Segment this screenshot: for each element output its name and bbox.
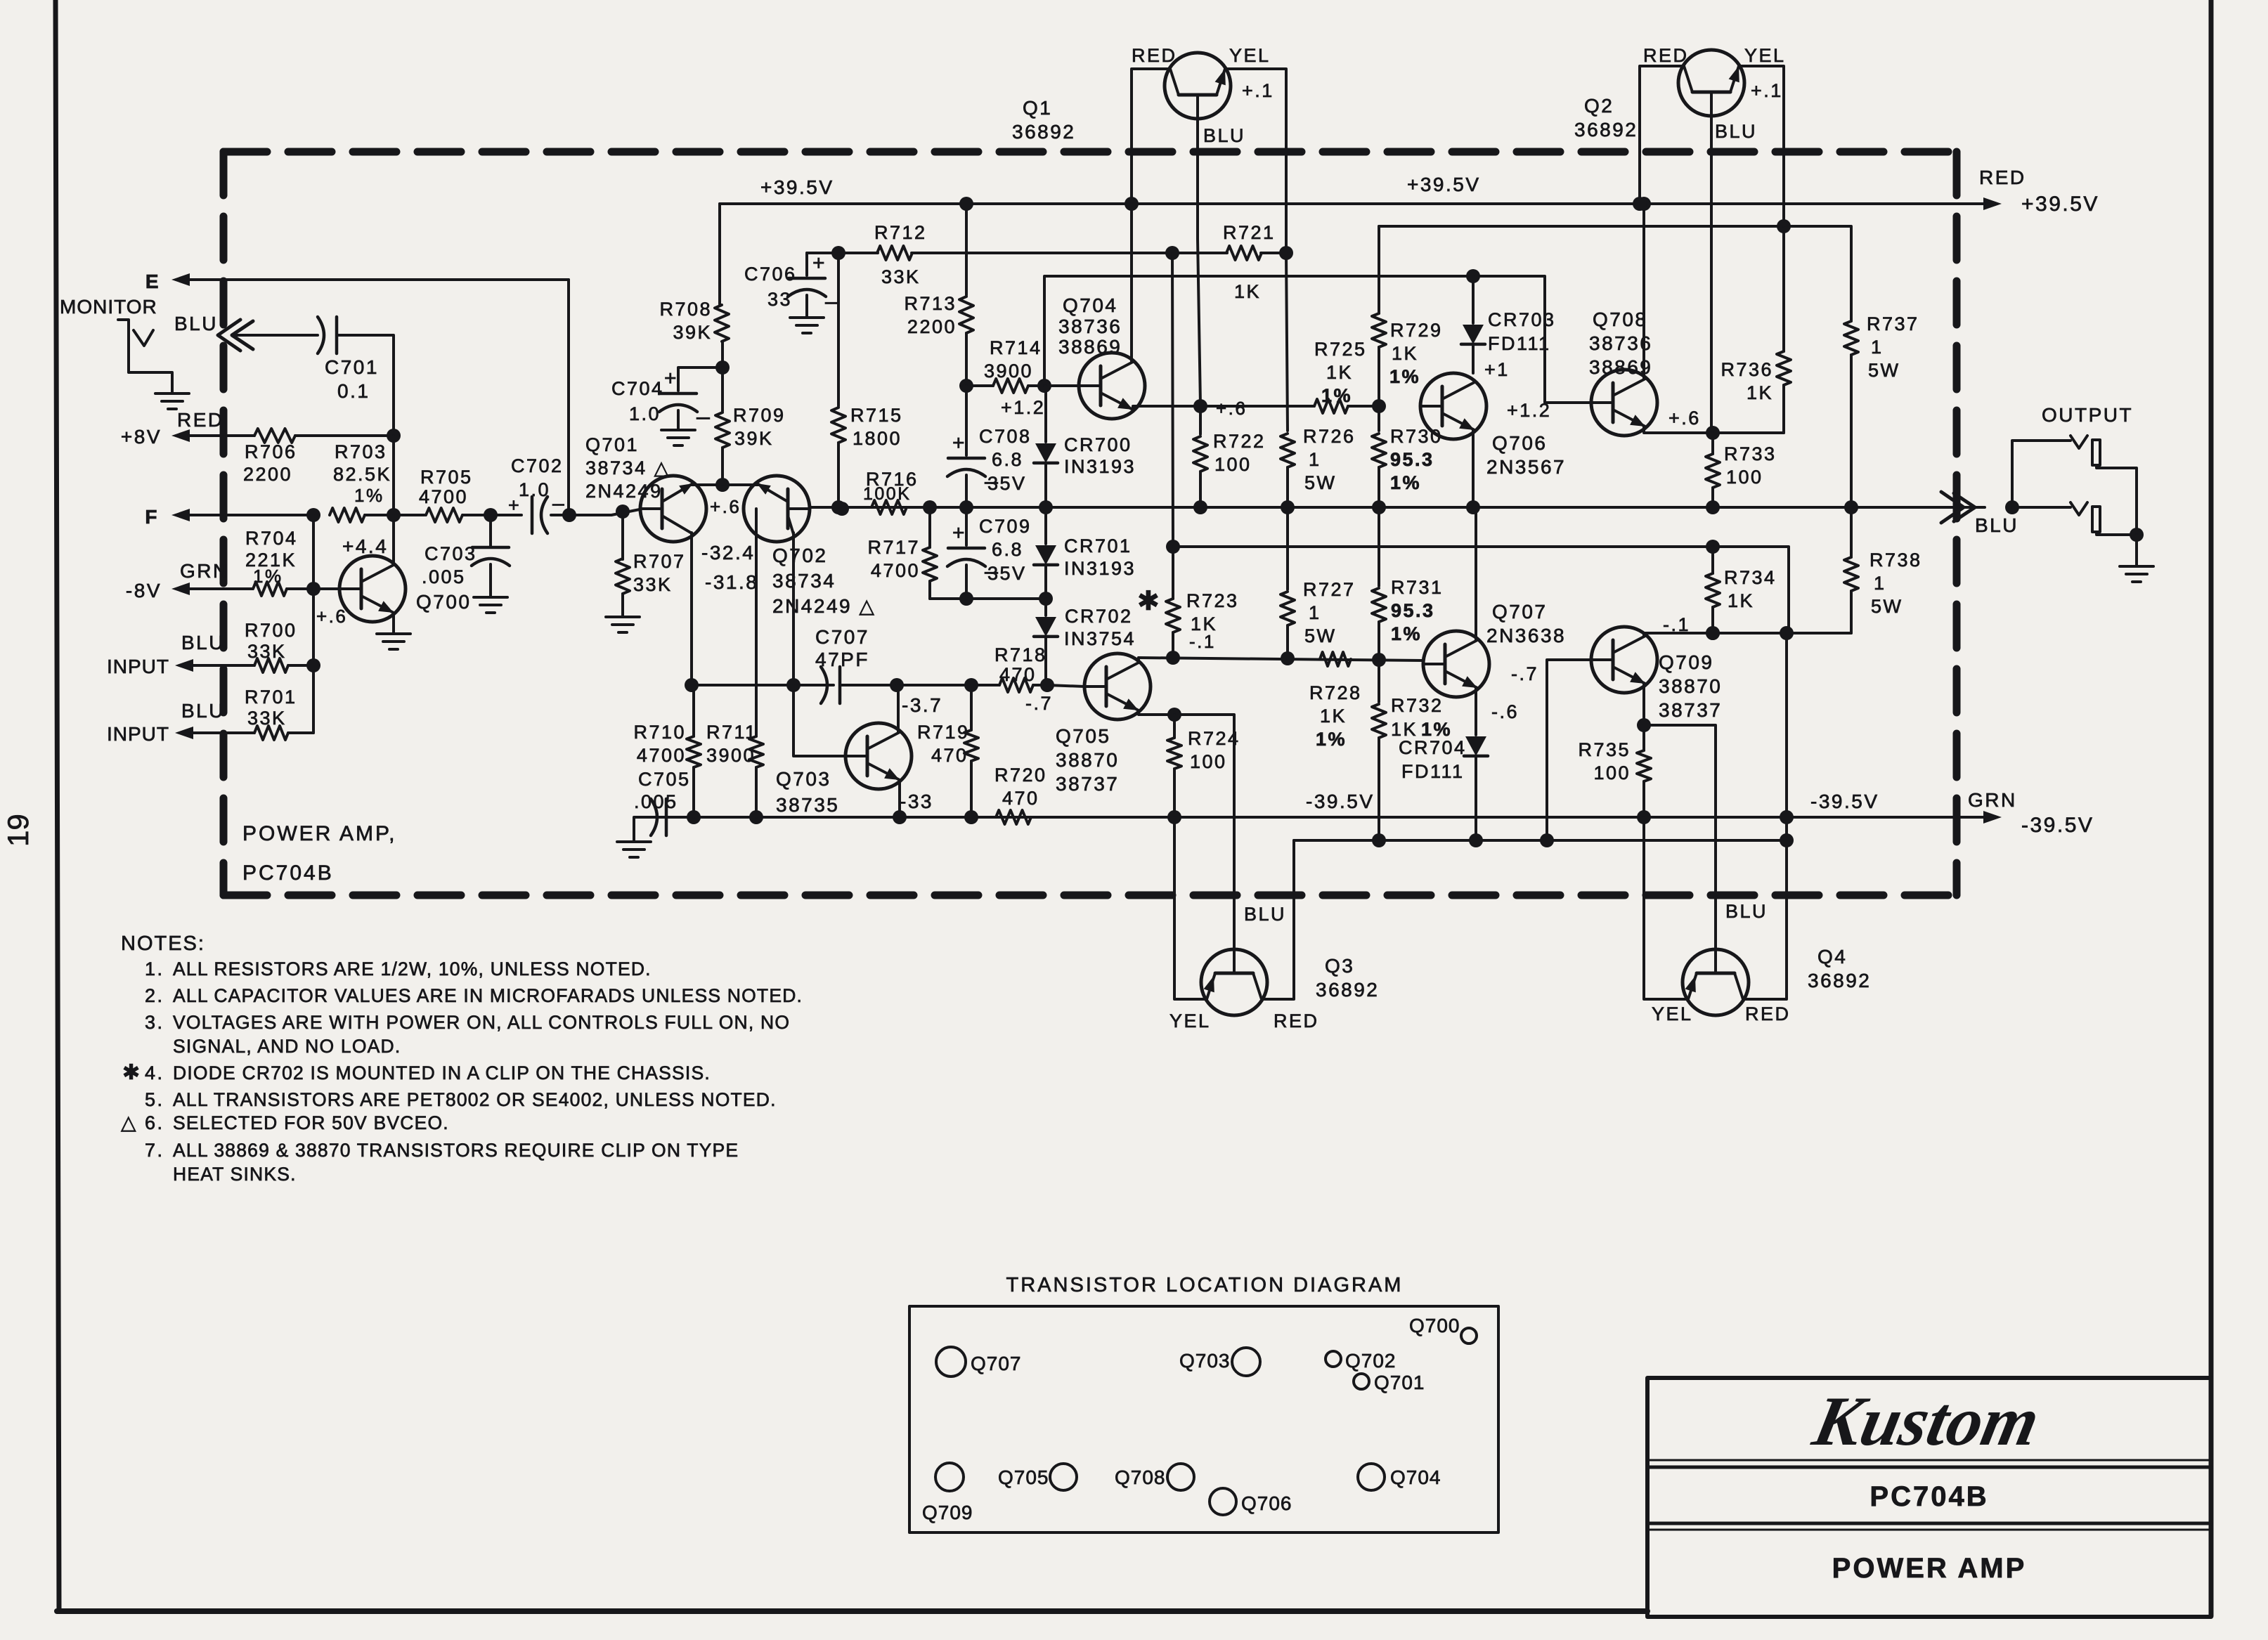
transistor Q704	[1044, 384, 1078, 387]
junction jack ground	[2130, 528, 2144, 542]
svg-text:R720: R720	[994, 764, 1047, 786]
svg-text:GRN: GRN	[1968, 789, 2017, 811]
transistor Q1	[1165, 53, 1231, 119]
svg-text:C701: C701	[325, 356, 379, 378]
junction C709 top	[959, 500, 973, 514]
svg-text:38735: 38735	[776, 794, 839, 816]
svg-text:R723: R723	[1186, 590, 1239, 611]
svg-text:5.: 5.	[145, 1089, 164, 1110]
resistor R731	[1378, 507, 1380, 586]
svg-text:Q705: Q705	[1056, 725, 1111, 747]
svg-text:95.3: 95.3	[1390, 449, 1434, 470]
wire R714 up to rail393	[1044, 276, 1473, 386]
svg-text:IN3754: IN3754	[1064, 628, 1136, 649]
svg-text:-31.8: -31.8	[705, 571, 758, 593]
junction Q3 yel / R724	[1167, 810, 1181, 824]
svg-text:38737: 38737	[1659, 699, 1722, 721]
resistor R728 on rail938	[1320, 652, 1351, 666]
svg-text:C703: C703	[425, 543, 477, 564]
junction R736 top rail2	[1777, 219, 1791, 233]
svg-text:R730: R730	[1390, 426, 1443, 447]
junction Q702 base	[835, 502, 849, 516]
resistor R718	[897, 684, 999, 686]
svg-text:C708: C708	[979, 426, 1032, 447]
svg-text:+4.4: +4.4	[342, 535, 388, 557]
svg-text:BLU: BLU	[1203, 125, 1245, 146]
svg-text:Q3: Q3	[1325, 955, 1354, 977]
svg-text:+1.2: +1.2	[1001, 397, 1045, 418]
transistor Q706	[1420, 373, 1486, 439]
resistor R707	[621, 512, 624, 559]
node +8V arrow	[171, 429, 190, 442]
svg-text:1: 1	[1309, 449, 1321, 470]
wire Q702 collector down	[792, 533, 795, 685]
svg-text:R732: R732	[1391, 695, 1444, 716]
svg-text:ALL RESISTORS ARE 1/2W, 10%, U: ALL RESISTORS ARE 1/2W, 10%, UNLESS NOTE…	[173, 958, 652, 980]
svg-text:E: E	[145, 271, 160, 292]
svg-text:Q702: Q702	[1345, 1350, 1397, 1372]
svg-text:ALL 38869 & 38870 TRANSISTORS: ALL 38869 & 38870 TRANSISTORS REQUIRE CL…	[173, 1140, 739, 1161]
wire Q703 emitter	[898, 780, 901, 817]
junction CR704 bottom	[1469, 833, 1483, 847]
svg-text:1%: 1%	[1390, 472, 1421, 493]
junction Q702 collector	[786, 678, 801, 692]
wire Q704 collector to bus	[1130, 204, 1133, 362]
svg-text:Q708: Q708	[1593, 308, 1648, 330]
wire corner down to -39.5 bus	[1785, 633, 1788, 840]
svg-text:SELECTED FOR 50V BVCEO.: SELECTED FOR 50V BVCEO.	[173, 1112, 449, 1133]
svg-text:38736: 38736	[1058, 315, 1122, 337]
resistor R726	[1286, 253, 1288, 431]
junction emitter node +.6	[715, 478, 730, 492]
junction Q701 collector/R710	[685, 678, 699, 692]
svg-text:1: 1	[1874, 573, 1886, 594]
monitor jack	[118, 320, 172, 392]
rail936 -.1	[1139, 658, 1423, 660]
wire monitor to C701	[232, 334, 318, 337]
svg-text:6.8: 6.8	[992, 539, 1023, 560]
svg-text:38870: 38870	[1056, 749, 1119, 771]
svg-text:100K: 100K	[863, 484, 911, 504]
svg-text:39K: 39K	[734, 428, 774, 449]
svg-text:1: 1	[1309, 602, 1321, 623]
resistor R719	[970, 685, 973, 730]
svg-text:R733: R733	[1724, 443, 1777, 464]
diode CR700	[1035, 443, 1056, 463]
rail 975 C707	[692, 684, 834, 686]
svg-text:HEAT SINKS.: HEAT SINKS.	[173, 1164, 297, 1185]
junction -8V/Q700 base	[306, 582, 320, 596]
svg-text:Q709: Q709	[1659, 651, 1714, 673]
resistor R703	[330, 508, 365, 522]
junction Q706 emitter rail722	[1466, 500, 1480, 514]
resistor R723	[1172, 547, 1174, 599]
svg-text:5W: 5W	[1868, 360, 1900, 381]
svg-text:Q704: Q704	[1063, 294, 1118, 316]
svg-text:BLU: BLU	[1975, 514, 2018, 536]
wire Q2 yel lead	[1739, 66, 1784, 226]
svg-text:R726: R726	[1303, 426, 1356, 447]
svg-text:C707: C707	[815, 626, 869, 648]
svg-text:3900: 3900	[706, 745, 756, 766]
svg-text:GRN: GRN	[180, 560, 229, 582]
svg-text:Q2: Q2	[1584, 95, 1614, 117]
junction R719 top	[964, 678, 978, 692]
transistor location diagram box	[909, 1306, 1498, 1532]
svg-text:R736: R736	[1721, 359, 1773, 380]
svg-text:1K: 1K	[1747, 382, 1773, 403]
wire Q1 yel lead	[1225, 69, 1286, 253]
wire +8V node down to F rail	[392, 436, 395, 510]
page border left	[56, 0, 59, 1611]
svg-text:-8V: -8V	[126, 580, 162, 601]
svg-text:19: 19	[1, 814, 34, 847]
svg-text:R709: R709	[733, 405, 786, 426]
junction Q709 emitter	[1637, 718, 1651, 732]
capacitor C709	[965, 507, 968, 545]
svg-text:36892: 36892	[1574, 119, 1638, 141]
junction Q708 emitter/R733	[1706, 426, 1720, 440]
logo Kustom	[1806, 1382, 2046, 1460]
svg-text:R734: R734	[1724, 567, 1777, 588]
svg-text:BLU: BLU	[174, 313, 218, 334]
node E arrow	[171, 273, 190, 286]
ground C705	[617, 840, 651, 843]
junction R723 top rail778	[1166, 540, 1180, 554]
svg-text:R738: R738	[1870, 549, 1922, 571]
junction R732 rail1196	[1372, 833, 1386, 847]
svg-text:CR703: CR703	[1488, 309, 1556, 330]
svg-text:R711: R711	[706, 722, 758, 743]
resistor R714	[966, 384, 993, 387]
svg-text:R718: R718	[994, 644, 1047, 665]
junction R724 top	[1167, 708, 1181, 722]
svg-text:R719: R719	[917, 722, 970, 743]
wire Q700 collector	[392, 515, 395, 565]
wire R738 bottom to rail901	[1787, 632, 1851, 634]
transistor Q3	[1201, 949, 1267, 1015]
svg-text:CR700: CR700	[1064, 434, 1132, 455]
svg-text:33K: 33K	[881, 266, 921, 287]
svg-text:Q700: Q700	[416, 591, 472, 613]
rail 1196	[1294, 839, 1787, 842]
svg-text:–: –	[825, 288, 838, 315]
location Q702	[1326, 1351, 1341, 1367]
page border bottom	[57, 1608, 1647, 1614]
capacitor C702	[491, 514, 521, 516]
wire Q700 emitter to ground	[392, 613, 395, 632]
resistor R722	[1199, 406, 1202, 434]
svg-text:R706: R706	[245, 441, 297, 462]
svg-text:5W: 5W	[1871, 596, 1903, 617]
svg-text:3900: 3900	[984, 360, 1033, 382]
junction diode chain rail722	[1039, 500, 1053, 514]
svg-text:1K: 1K	[1191, 613, 1217, 634]
junction input1	[306, 658, 320, 672]
svg-text:R724: R724	[1188, 728, 1240, 749]
+39.5V top bus	[720, 202, 1985, 205]
svg-text:6.: 6.	[145, 1112, 164, 1133]
wire Q705 collector	[1137, 658, 1140, 663]
rail852 C709 to CR702	[930, 597, 1046, 600]
resistor R738	[1850, 507, 1853, 557]
wire Q701 emitter node	[692, 483, 759, 486]
svg-text:Q700: Q700	[1409, 1315, 1460, 1336]
transistor Q703	[845, 723, 912, 789]
svg-text:1K: 1K	[1234, 281, 1261, 302]
title block divider 2	[1647, 1522, 2211, 1525]
junction R708/C704/R709	[715, 360, 730, 375]
svg-text:Q705: Q705	[998, 1466, 1049, 1488]
junction R726 bottom	[1281, 500, 1295, 514]
junction R715 bottom	[831, 500, 845, 514]
wire E down to C702 node	[567, 280, 570, 510]
svg-text:PC704B: PC704B	[1870, 1481, 1988, 1512]
output jack 1	[2071, 436, 2087, 448]
svg-text:✱: ✱	[122, 1061, 142, 1084]
ground monitor jack	[155, 392, 189, 395]
resistor R734	[1711, 547, 1714, 573]
resistor R712	[838, 252, 878, 254]
svg-text:33K: 33K	[633, 574, 673, 595]
svg-text:R713: R713	[904, 293, 957, 314]
wire CR700 to rail722	[1044, 463, 1047, 507]
resistor R701	[193, 731, 254, 734]
output jack 2	[2071, 502, 2087, 515]
junction R712 left	[831, 246, 845, 260]
svg-text:470: 470	[999, 664, 1037, 685]
transistor Q4	[1683, 949, 1749, 1015]
page border right	[2209, 0, 2214, 1616]
wire Q707 collector	[1475, 507, 1477, 640]
junction R727 bottom	[1281, 651, 1295, 665]
svg-text:1%: 1%	[1316, 729, 1347, 750]
junction R714 left	[959, 379, 973, 393]
svg-text:R737: R737	[1867, 313, 1919, 334]
svg-text:TRANSISTOR LOCATION DIAGRAM: TRANSISTOR LOCATION DIAGRAM	[1006, 1274, 1404, 1296]
wire C708 below R713	[965, 386, 968, 455]
svg-text:7.: 7.	[145, 1140, 164, 1161]
svg-text:Kustom: Kustom	[1806, 1382, 2046, 1460]
svg-text:R705: R705	[420, 467, 473, 488]
wire Q707 emitter	[1475, 688, 1477, 735]
svg-text:+39.5V: +39.5V	[2021, 193, 2099, 216]
junction Q709 base rail1196	[1540, 833, 1554, 847]
svg-text:82.5K: 82.5K	[333, 464, 391, 485]
svg-text:C704: C704	[611, 378, 664, 399]
svg-text:✱: ✱	[1137, 587, 1161, 616]
wire R725 to Q706 base	[1348, 405, 1379, 408]
+39.5V arrow right	[1983, 197, 2002, 210]
wire Q4 yel lead	[1644, 817, 1688, 999]
junction R713 top on bus	[959, 197, 973, 211]
rail R712/R721	[807, 252, 838, 254]
svg-text:RED: RED	[1274, 1010, 1319, 1031]
svg-text:Q701: Q701	[585, 434, 639, 455]
svg-text:BLU: BLU	[1725, 901, 1768, 922]
dashed board outline left	[220, 152, 228, 895]
svg-text:1.0: 1.0	[629, 403, 661, 424]
svg-text:4700: 4700	[871, 560, 920, 581]
capacitor C707	[821, 667, 827, 703]
wire C707 right	[840, 684, 897, 686]
resistor R700	[193, 664, 254, 667]
svg-text:C706: C706	[744, 263, 797, 285]
resistor R711	[755, 509, 758, 736]
svg-text:YEL: YEL	[1169, 1010, 1211, 1031]
svg-text:RED: RED	[1643, 45, 1689, 66]
svg-text:SIGNAL, AND NO LOAD.: SIGNAL, AND NO LOAD.	[173, 1036, 401, 1057]
svg-text:+39.5V: +39.5V	[760, 176, 834, 198]
svg-text:BLU: BLU	[181, 632, 225, 653]
title block divider 1	[1647, 1466, 2211, 1469]
svg-text:-3.7: -3.7	[902, 694, 942, 716]
junction R730 bottom	[1372, 500, 1386, 514]
svg-text:1%: 1%	[1391, 623, 1422, 644]
svg-text:-.6: -.6	[1491, 701, 1519, 722]
svg-text:100: 100	[1593, 762, 1631, 783]
transistor Q700	[313, 587, 339, 590]
dashed board outline bottom	[223, 892, 1957, 899]
ground output jack	[2120, 565, 2153, 568]
junction chain rail852	[1039, 592, 1053, 606]
svg-text:38870: 38870	[1659, 675, 1722, 697]
svg-text:1: 1	[1871, 337, 1884, 358]
svg-text:470: 470	[1002, 788, 1039, 809]
wire rail393 to Q708 base	[1473, 276, 1591, 403]
resistor R733	[1711, 433, 1714, 454]
junction F/R704	[306, 508, 320, 522]
wire Q704 emitter to +.6 rail	[1132, 407, 1134, 410]
resistor R725	[1314, 399, 1348, 413]
svg-text:36892: 36892	[1012, 121, 1075, 143]
svg-text:1K: 1K	[1326, 362, 1353, 383]
svg-text:YEL: YEL	[1652, 1003, 1693, 1024]
svg-text:-33: -33	[900, 790, 933, 812]
svg-text:RED: RED	[1132, 45, 1177, 66]
svg-text:-32.4: -32.4	[701, 542, 755, 564]
wire Q709 emitter to Q4 base	[1644, 725, 1716, 949]
junction R719 bottom	[964, 810, 978, 824]
wire C701 to +8V node	[337, 335, 394, 436]
+.6 rail Q704 emitter	[1133, 405, 1314, 408]
svg-text:POWER AMP,: POWER AMP,	[242, 822, 397, 845]
svg-text:-.7: -.7	[1511, 663, 1538, 684]
svg-text:+.6: +.6	[710, 496, 741, 517]
svg-text:RED: RED	[1979, 167, 2026, 188]
svg-text:+.1: +.1	[1751, 80, 1783, 101]
svg-text:+.6: +.6	[1216, 398, 1247, 419]
svg-text:R704: R704	[245, 528, 298, 549]
wire R703-R704 vertical	[312, 515, 315, 733]
svg-text:R721: R721	[1223, 222, 1276, 243]
dashed board outline right	[1953, 152, 1961, 895]
svg-text:-39.5V: -39.5V	[1810, 790, 1879, 812]
svg-text:RED: RED	[1745, 1003, 1791, 1024]
svg-text:2200: 2200	[243, 464, 292, 485]
wire R713 to R714 junction	[965, 333, 968, 386]
resistor R704	[190, 587, 252, 590]
svg-text:2N3638: 2N3638	[1486, 625, 1566, 646]
dashed board outline top	[223, 148, 1957, 156]
svg-text:ALL CAPACITOR VALUES ARE IN MI: ALL CAPACITOR VALUES ARE IN MICROFARADS …	[173, 985, 803, 1006]
svg-text:.005: .005	[422, 566, 466, 587]
resistor R716 on rail	[871, 500, 907, 514]
location Q703	[1232, 1348, 1260, 1376]
junction R723 bottom	[1166, 651, 1180, 665]
svg-text:4700: 4700	[637, 745, 686, 766]
junction bus 2542	[1780, 810, 1794, 824]
wire R721 junction down to R723	[1172, 254, 1173, 547]
rail393 CR703 junction	[1466, 269, 1480, 283]
svg-text:R729: R729	[1390, 320, 1443, 341]
capacitor C701	[318, 317, 324, 353]
wire output to jack2	[2012, 506, 2071, 509]
svg-text:ALL TRANSISTORS ARE PET8002 OR: ALL TRANSISTORS ARE PET8002 OR SE4002, U…	[173, 1089, 777, 1110]
wire rail1196 to Q709 base	[1547, 660, 1590, 840]
junction F/Q700 collector	[387, 508, 401, 522]
transistor Q2	[1678, 50, 1744, 116]
node F arrow	[171, 509, 190, 521]
svg-text:3.: 3.	[145, 1012, 164, 1033]
-39.5V arrow	[1983, 811, 2002, 824]
svg-text:47PF: 47PF	[815, 649, 869, 670]
svg-text:Q709: Q709	[922, 1502, 973, 1523]
capacitor C708	[948, 457, 985, 460]
junction Q708 collector bus	[1637, 197, 1651, 211]
svg-text:YEL: YEL	[1229, 45, 1271, 66]
location Q704	[1358, 1464, 1385, 1490]
main rail 722	[810, 506, 1985, 509]
resistor R721	[1172, 252, 1227, 254]
svg-text:Q704: Q704	[1390, 1466, 1441, 1488]
resistor R709	[721, 367, 724, 411]
resistor R713	[959, 297, 973, 333]
junction rail901 corner	[1780, 626, 1794, 640]
svg-text:2200: 2200	[907, 316, 957, 337]
wire jack to ground	[2135, 535, 2138, 565]
svg-text:+1: +1	[1484, 359, 1510, 380]
resistor R710	[692, 685, 695, 736]
Q705 emitter rail 1017	[1139, 711, 1234, 949]
location Q700	[1461, 1328, 1477, 1343]
wire Q4 red lead	[1743, 840, 1787, 999]
junction R711 bottom	[749, 810, 763, 824]
transistor Q705	[1047, 685, 1084, 686]
svg-text:Q706: Q706	[1492, 432, 1548, 454]
svg-text:2N4249: 2N4249	[585, 481, 663, 502]
title block box	[1647, 1378, 2211, 1617]
junction C707/Q703 collector	[890, 678, 904, 692]
svg-text:38734: 38734	[772, 570, 836, 592]
svg-text:1K: 1K	[1392, 343, 1418, 364]
resistor R730	[1378, 406, 1380, 431]
wire Q2 base down to R733 node	[1710, 116, 1713, 431]
svg-text:5W: 5W	[1304, 472, 1337, 493]
junction R737 bottom	[1844, 500, 1858, 514]
svg-text:R715: R715	[850, 405, 903, 426]
svg-text:-39.5V: -39.5V	[1306, 790, 1375, 812]
resistor R729	[1378, 226, 1380, 313]
svg-text:4.: 4.	[145, 1062, 164, 1083]
svg-text:R735: R735	[1578, 739, 1631, 760]
svg-text:+: +	[952, 521, 965, 545]
svg-text:5W: 5W	[1304, 625, 1337, 646]
resistor R735	[1642, 725, 1645, 750]
svg-text:C702: C702	[511, 455, 564, 476]
svg-text:R722: R722	[1213, 431, 1266, 452]
junction Q1 red on bus	[1125, 197, 1139, 211]
